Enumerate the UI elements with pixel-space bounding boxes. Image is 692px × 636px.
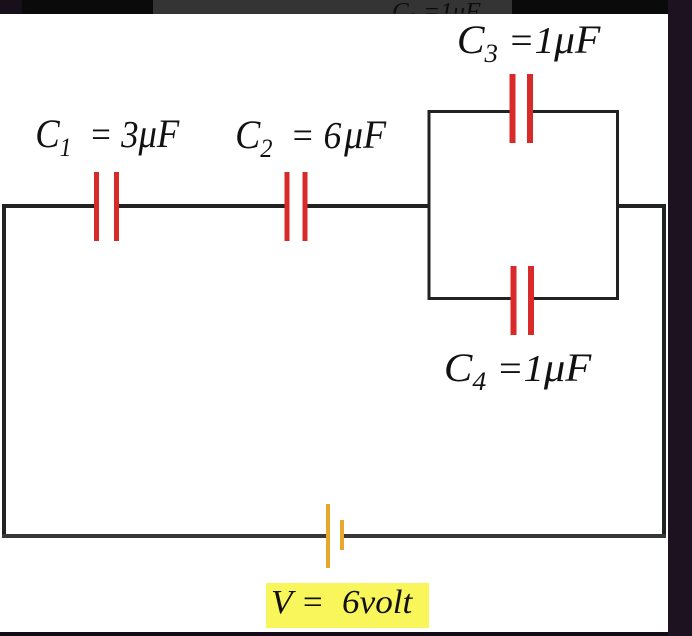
capacitor C1 plates	[94, 172, 119, 241]
wire: bottom horizontal, left to battery	[2, 534, 327, 538]
label C4 =1uF	[444, 345, 592, 396]
node box bottom edge left segment	[428, 297, 511, 300]
node box top edge right segment	[533, 110, 619, 113]
node box top edge left segment	[428, 110, 510, 113]
wire: top horizontal, C1 to C2	[119, 204, 285, 208]
background window title bar (gray)	[153, 0, 512, 14]
capacitor C4 plates	[511, 266, 535, 335]
battery V short plate	[340, 520, 344, 550]
clipped background text C3 =1uF	[392, 0, 481, 28]
bottom purple strip	[0, 630, 668, 636]
right purple column	[668, 0, 692, 636]
wire: top horizontal, left edge to C1	[2, 204, 95, 208]
svg-text:C2 = 6μF: C2 = 6μF	[235, 113, 387, 163]
label V = 6volt text	[271, 584, 414, 621]
wire: box right to outer right	[618, 204, 666, 208]
svg-text:C1 = 3μF: C1 = 3μF	[35, 113, 180, 163]
wire: top horizontal, C2 to box left	[307, 204, 430, 208]
top-left purple patch	[0, 0, 22, 14]
svg-text:C4 =1μF: C4 =1μF	[444, 345, 592, 396]
label V = 6volt highlight	[266, 583, 429, 628]
label C3 =1uF	[457, 18, 602, 68]
battery V long plate	[326, 504, 330, 568]
wire: left vertical	[2, 204, 6, 538]
svg-text:C3 =1μF: C3 =1μF	[457, 18, 602, 68]
node box right edge	[616, 110, 619, 300]
node box bottom edge right segment	[534, 297, 619, 300]
capacitor C2 plates	[285, 172, 308, 241]
capacitor C3 plates	[510, 74, 534, 143]
label C1 = 3uF	[35, 113, 180, 163]
wire: bottom horizontal, battery to right	[343, 534, 666, 538]
node box (parallel branch) left edge	[428, 110, 431, 300]
wire: right vertical	[662, 204, 666, 538]
label C2 = 6uF	[235, 113, 387, 163]
svg-text:V = 6volt: V = 6volt	[271, 584, 414, 621]
